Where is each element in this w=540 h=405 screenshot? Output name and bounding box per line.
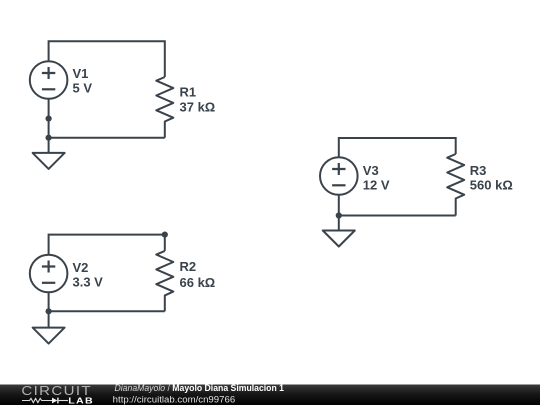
node junction dot (bottom left) [46,308,52,314]
logo resistor squiggle [22,398,52,402]
node junction dot [46,135,52,141]
svg-text:12 V: 12 V [363,178,390,193]
node junction dot (top right) [162,232,168,238]
svg-text:3.3 V: 3.3 V [73,275,104,290]
logo diode [52,398,57,404]
node junction dot [46,116,52,122]
svg-text:37 kΩ: 37 kΩ [180,100,216,115]
node junction dot [336,212,342,218]
resistor R2 [156,251,173,311]
wire top (V1+ to R1 top) [49,41,165,77]
ground (circuit 1) [33,153,65,169]
wire (V3- down to ground) [338,195,340,231]
svg-text:66 kΩ: 66 kΩ [180,275,216,290]
wire bottom (node to R2 bottom) [49,310,165,312]
logo wire to LAB [59,400,68,402]
svg-text:DianaMayolo / Mayolo Diana Sim: DianaMayolo / Mayolo Diana Simulacion 1 [115,383,285,393]
svg-text:http://circuitlab.com/cn99766: http://circuitlab.com/cn99766 [113,394,235,404]
wire top (V2+ to R2 top) [49,235,165,255]
wire bottom (node to R3 bottom) [339,215,456,217]
footer bar background [0,385,540,405]
voltage source V3 [320,157,358,195]
resistor R3 [447,154,464,216]
wire bottom (node to R1 bottom) [49,137,165,139]
ground (circuit 3) [323,231,355,247]
ground (circuit 2) [33,328,65,344]
svg-text:R1: R1 [180,85,197,100]
wire top (V3+ to R3 top) [339,138,456,157]
svg-text:R2: R2 [180,259,197,274]
svg-text:LAB: LAB [68,395,94,405]
svg-text:V3: V3 [363,163,379,178]
voltage source V1 [30,61,68,99]
svg-text:560 kΩ: 560 kΩ [470,177,513,192]
voltage source V2 [30,255,68,293]
svg-text:5 V: 5 V [73,81,93,96]
svg-text:R3: R3 [470,163,487,178]
resistor R1 [156,77,173,138]
svg-text:V2: V2 [73,260,89,275]
wire (V1- down to ground) [48,99,50,153]
svg-text:V1: V1 [73,66,89,81]
wire (V2- down to ground) [48,292,50,327]
